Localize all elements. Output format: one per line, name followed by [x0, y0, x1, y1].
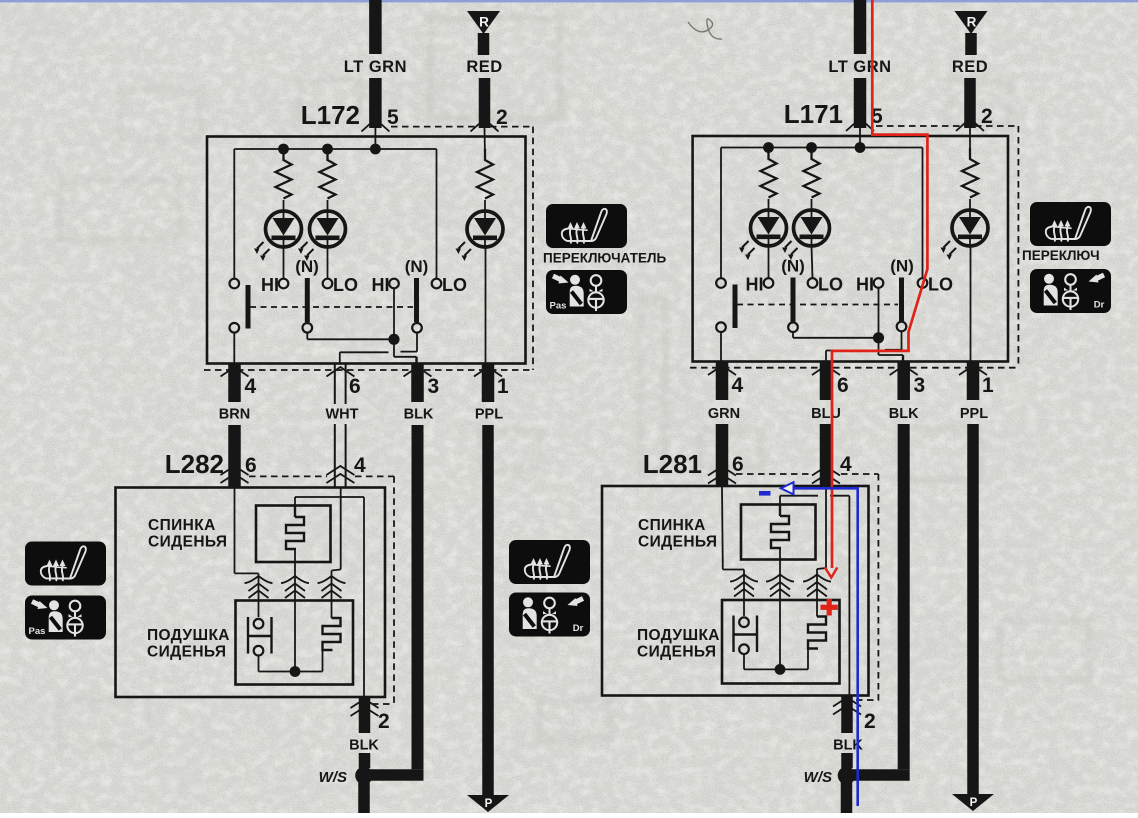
- pin 4 stub (L171): [716, 362, 729, 401]
- wire LED3 down to pin 1: [485, 247, 487, 363]
- LED indicator 3 (pilot): [467, 211, 503, 247]
- wire pin5 into internal supply rail (L171): [859, 128, 861, 148]
- connector L171 dashed boundary: [876, 125, 1018, 127]
- seat back heater element box (L281): [741, 505, 816, 560]
- svg-text:W/S: W/S: [804, 769, 832, 786]
- svg-text:HI: HI: [261, 275, 279, 295]
- resistor branch 3 (pilot, from pin 2, L171): [969, 128, 971, 157]
- LED indicator 1 (HI, L171): [751, 210, 787, 246]
- switch2 LO terminal circle (L171): [918, 278, 928, 288]
- connector L282 pin 4 double tent: [326, 466, 354, 475]
- wire RED to connector L172 pin 2: [479, 78, 491, 128]
- wire element top to pin2 riser (L281): [779, 496, 781, 505]
- wire switch2 lower contact toward pin 6 (with crossover hop): [416, 333, 418, 352]
- switch1 moving contact bar: [246, 285, 251, 329]
- red trace arrowhead: [825, 568, 837, 578]
- wire cushion element to junction: [322, 650, 324, 672]
- svg-text:1: 1: [982, 374, 994, 397]
- pin 6 tent (L171): [812, 366, 840, 376]
- svg-text:6: 6: [732, 453, 744, 476]
- svg-text:WHT: WHT: [325, 407, 358, 423]
- switch1 lower contact circle (mid, L171): [788, 322, 798, 332]
- pin 1 tent: [474, 367, 502, 377]
- switch1 neutral contact bar (N) (L171): [791, 278, 796, 322]
- pin 2 terminal tent (L171): [956, 119, 984, 132]
- svg-text:L282: L282: [165, 449, 224, 479]
- wire PPL from L172 pin 1 down to connector P (left): [482, 425, 494, 795]
- pin 5 terminal tent (L171): [846, 119, 874, 132]
- svg-text:Dr: Dr: [573, 623, 584, 634]
- svg-text:BLK: BLK: [889, 406, 919, 422]
- LED indicator 1 (HI): [266, 211, 302, 247]
- driver seat icon right of L171: [1030, 269, 1111, 313]
- switch1 lower contact circle (left): [230, 323, 240, 333]
- seat cushion heater element (meander): [323, 618, 341, 650]
- mechanical link dashed line (L171): [737, 304, 898, 306]
- wire below splice to bottom edge (left): [358, 776, 370, 814]
- wire pin6 down inside L282: [234, 488, 236, 573]
- svg-text:4: 4: [245, 375, 257, 398]
- wire PPL from L171 pin 1 down to connector P (right): [967, 424, 979, 794]
- wire RED stub below R connector: [478, 33, 490, 55]
- internal supply rail (L172): [234, 148, 436, 150]
- splice dot W/S (right): [838, 767, 856, 785]
- wire BLK from L172 pin 3 down to W/S splice: [412, 425, 424, 769]
- svg-text:BLK: BLK: [349, 738, 379, 754]
- thermal limit switch (L282 cushion): [247, 617, 249, 654]
- svg-text:4: 4: [354, 454, 366, 477]
- seat cushion box (L281): [722, 600, 840, 684]
- junction dot rail/branch 1 (L171): [763, 142, 774, 153]
- svg-text:LT GRN: LT GRN: [344, 58, 407, 76]
- wire LT GRN lower segment to connector L172 pin 5: [369, 78, 382, 128]
- blue minus symbol: [759, 491, 771, 496]
- svg-text:R: R: [967, 15, 977, 30]
- connector P (right): [952, 794, 994, 811]
- seat back heater element box (L282): [256, 506, 331, 563]
- svg-text:4: 4: [732, 374, 744, 397]
- seat heater module L281 body box: [602, 486, 869, 696]
- svg-text:HI: HI: [746, 275, 764, 295]
- svg-text:СПИНКА: СПИНКА: [638, 517, 706, 534]
- wire LED2 to LO terminal (L171): [812, 246, 813, 278]
- seat heater module L282 body box: [116, 488, 386, 698]
- inline connector chevrons (centre): [294, 550, 296, 672]
- svg-text:HI: HI: [856, 275, 874, 295]
- wire LT GRN feed (right, pin 5) upper segment: [854, 0, 867, 54]
- junction dot rail/pin5: [370, 144, 381, 155]
- svg-text:LO: LO: [333, 275, 358, 295]
- connector L281 dashed boundary: [736, 473, 812, 475]
- driver seat icon left of L281: [509, 593, 590, 637]
- svg-text:3: 3: [428, 375, 440, 398]
- wire pin4 down inside L281: [825, 487, 827, 568]
- seat back heater element (meander, L281): [779, 505, 781, 517]
- seat cushion box (L282): [236, 601, 354, 685]
- svg-text:RED: RED: [952, 58, 988, 76]
- switch1 LO terminal circle (L171): [808, 278, 818, 288]
- LED indicator 2 (LO, L171): [794, 210, 830, 246]
- red highlight trace: power feed path: [832, 0, 927, 568]
- svg-text:6: 6: [837, 374, 849, 397]
- wire RED stub below R connector (right): [965, 33, 977, 55]
- ground bus from BLK wire to splice (right): [847, 769, 910, 781]
- pin 2 double tent (L281): [833, 698, 861, 707]
- connector L281 pin 4 double tent: [812, 467, 840, 476]
- svg-text:Dr: Dr: [1094, 300, 1105, 311]
- svg-text:PPL: PPL: [960, 406, 988, 422]
- svg-text:L171: L171: [784, 99, 843, 129]
- svg-text:СИДЕНЬЯ: СИДЕНЬЯ: [637, 644, 716, 661]
- wire BLU from L171 pin 6 to L281 pin 4: [820, 424, 833, 487]
- inline connector chevrons (right): [331, 571, 333, 619]
- wire GRN from L171 pin 4 to L281 pin 6: [716, 424, 729, 487]
- blue highlight trace: ground path: [792, 488, 858, 806]
- wire junction down and right to pin 3 (L171): [878, 338, 880, 355]
- wire pin 2 to W/S splice: [359, 753, 371, 768]
- switch1 common terminal circle (L171): [716, 278, 726, 288]
- junction dot cushion common: [290, 666, 301, 677]
- switch1 common terminal circle: [230, 279, 240, 289]
- svg-text:2: 2: [378, 710, 390, 733]
- inline connector chevrons (left, seat back to cushion): [258, 573, 260, 617]
- wire thermal switch to junction (L281): [743, 655, 745, 670]
- thermal limit switch (L281 cushion): [732, 616, 734, 653]
- svg-text:ПОДУШКА: ПОДУШКА: [637, 627, 720, 644]
- mechanical link dashed line between switch bars: [250, 306, 413, 308]
- svg-text:LO: LO: [928, 275, 953, 295]
- switch1 moving contact bar (L171): [733, 285, 738, 329]
- wire switch1 lower contact to pin 4: [233, 333, 235, 363]
- svg-text:ПОДУШКА: ПОДУШКА: [147, 627, 230, 644]
- switch assembly L171 body box: [693, 136, 1008, 362]
- switch2 HI terminal circle (L171): [874, 278, 884, 288]
- svg-text:BRN: BRN: [219, 407, 250, 423]
- resistor branch 2 (LO indicator, L171): [804, 148, 820, 198]
- wire thermal switch to junction: [258, 656, 260, 671]
- switch1 lower contact circle (mid): [303, 323, 313, 333]
- pin 2 stub below L281: [841, 696, 853, 734]
- pin 4 stub (L172): [228, 364, 241, 403]
- switch2 LO terminal circle: [432, 279, 442, 289]
- wire BRN from L172 pin 4 to L282 pin 6: [228, 425, 241, 488]
- wire switch2 HI terminal down to junction: [393, 288, 395, 339]
- pin 3 tent (L171): [890, 366, 918, 376]
- pin 3 stub (L172): [411, 364, 424, 403]
- svg-text:(N): (N): [295, 257, 319, 276]
- pin 3 tent: [404, 367, 432, 377]
- switch1 neutral contact bar (N): [305, 278, 310, 322]
- svg-text:LT GRN: LT GRN: [828, 58, 891, 76]
- switch2 lower contact circle: [412, 323, 422, 333]
- connector P (left): [467, 795, 509, 812]
- wire switch1 mid lower contact to junction (L171): [792, 332, 794, 338]
- svg-text:СИДЕНЬЯ: СИДЕНЬЯ: [638, 534, 717, 551]
- switch1 LO terminal circle: [323, 279, 333, 289]
- svg-text:2: 2: [981, 105, 993, 128]
- switch2 lower contact circle (L171): [897, 322, 907, 332]
- heated seat icon left of L282: [25, 542, 106, 586]
- pin 6 tent (L172): [326, 367, 354, 377]
- junction dot rail/pin5 (L171): [855, 142, 866, 153]
- rail corner down to LO2 terminal (L171): [922, 148, 924, 279]
- wire rail left end down to switch1 common: [233, 149, 235, 279]
- wire pin 2 to W/S splice (right): [841, 753, 853, 768]
- wire LT GRN lower segment to connector L171 pin 5: [854, 78, 867, 128]
- resistor branch 1 (HI indicator): [276, 149, 292, 199]
- svg-text:LO: LO: [818, 275, 843, 295]
- svg-text:L281: L281: [643, 449, 702, 479]
- pen squiggle artifact top right: [688, 19, 722, 39]
- svg-text:(N): (N): [890, 257, 914, 276]
- wire pin5 into internal supply rail: [374, 128, 376, 149]
- heated seat icon left of L281: [509, 540, 590, 584]
- pin 1 tent (L171): [959, 366, 987, 376]
- connector L282 dashed boundary: [249, 475, 327, 477]
- seat cushion heater element (meander, L281): [808, 617, 826, 649]
- resistor branch 2 (LO indicator): [320, 149, 336, 199]
- pin 3 stub (L171): [897, 362, 910, 401]
- internal supply rail (L171): [721, 147, 923, 149]
- pin 4 tent: [221, 367, 249, 377]
- wire pin6 down inside L281: [721, 487, 724, 570]
- pin 2 double tent (L282): [351, 699, 379, 708]
- connector L282 pin 6 double tent: [221, 466, 249, 475]
- junction dot rail/branch 2 (L171): [806, 142, 817, 153]
- wire LED1 to HI terminal: [283, 247, 285, 279]
- svg-text:(N): (N): [781, 257, 805, 276]
- pin 1 stub (L172): [482, 364, 495, 403]
- pin 5 terminal tent (L172): [361, 119, 389, 132]
- connector L281 pin 6 double tent: [708, 467, 736, 476]
- wire switch2 lower contact toward pin 6 (with crossover hop, L171): [901, 331, 903, 350]
- pin 1 stub (L171): [967, 362, 980, 401]
- svg-text:P: P: [970, 797, 978, 809]
- svg-text:4: 4: [840, 453, 852, 476]
- switch2 HI terminal circle: [389, 279, 399, 289]
- svg-text:BLU: BLU: [811, 406, 841, 422]
- riser wire to pin 2 (L282): [363, 497, 365, 697]
- passenger seat icon left of L282: [25, 596, 106, 640]
- svg-text:L172: L172: [301, 100, 360, 130]
- wire pin4 down inside L282: [340, 488, 342, 570]
- inline connector chevrons (centre, L281): [779, 549, 781, 670]
- pin 2 terminal tent (L172): [471, 119, 499, 132]
- blue scan edge line at top: [0, 0, 1138, 2]
- junction dot (switch outputs to pin 3): [388, 334, 399, 345]
- svg-text:6: 6: [349, 375, 361, 398]
- switch2 neutral contact bar (N): [414, 278, 419, 322]
- svg-text:GRN: GRN: [708, 406, 740, 422]
- resistor branch 1 (HI indicator, L171): [761, 148, 777, 198]
- svg-text:1: 1: [497, 375, 509, 398]
- ground bus from BLK wire to splice (left): [364, 769, 424, 781]
- switch icon (heated seat) right of L172: [546, 204, 627, 248]
- switch1 HI terminal circle (L171): [764, 278, 774, 288]
- switch2 neutral contact bar (N) (L171): [899, 278, 904, 322]
- blue trace arrowhead: [781, 482, 794, 494]
- wire LT GRN feed (left, pin 5) upper segment: [369, 0, 382, 54]
- wire BLK from L171 pin 3 down to W/S splice (right): [898, 424, 910, 769]
- wire rail left end down to switch1 common (L171): [720, 148, 722, 279]
- wire element top to pin2 riser: [294, 497, 296, 506]
- switch assembly L172 body box: [207, 137, 526, 364]
- svg-text:Pas: Pas: [550, 301, 567, 312]
- wire below splice to bottom edge (right): [841, 776, 853, 814]
- switch1 lower contact circle (left, L171): [716, 322, 726, 332]
- wire RED to connector L171 pin 2: [964, 78, 976, 128]
- wire cushion element to junction (L281): [807, 649, 809, 670]
- switch icon (heated seat) right of L171: [1030, 202, 1111, 246]
- inline connector chevrons (left, L281): [743, 570, 745, 617]
- connector L172 dashed boundary: [391, 126, 533, 128]
- seat back heater element (meander): [294, 506, 296, 518]
- svg-text:RED: RED: [466, 58, 502, 76]
- wire junction down and right to pin 3: [393, 339, 395, 357]
- wire switch1 lower contact to pin 4 (L171): [720, 332, 722, 361]
- LED indicator 3 (pilot, L171): [952, 210, 988, 246]
- splice dot W/S (left): [355, 767, 373, 785]
- junction dot cushion common (L281): [775, 664, 786, 675]
- svg-text:5: 5: [387, 106, 399, 129]
- svg-text:2: 2: [864, 710, 876, 733]
- riser wire to pin 2 (L281): [848, 496, 850, 696]
- svg-text:W/S: W/S: [319, 769, 347, 786]
- wire switch1 mid lower contact to junction: [306, 333, 308, 340]
- svg-text:СИДЕНЬЯ: СИДЕНЬЯ: [148, 534, 227, 551]
- svg-text:СПИНКА: СПИНКА: [148, 517, 216, 534]
- junction dot rail/branch 1: [278, 144, 289, 155]
- connector R (right RED feed): [955, 11, 988, 34]
- wire LED2 to LO terminal: [327, 247, 329, 279]
- inline connector chevrons (right, L281): [816, 569, 818, 617]
- resistor branch 3 (pilot, from pin 2): [484, 128, 487, 158]
- switch1 HI terminal circle: [279, 279, 289, 289]
- red plus symbol: [821, 605, 838, 610]
- connector R (left RED feed): [467, 11, 500, 34]
- junction dot (switch outputs to pin 3, L171): [873, 332, 884, 343]
- junction dot rail/branch 2: [322, 144, 333, 155]
- wire WHT from L172 pin 6 to L282 pin 4 (hollow double line): [334, 364, 336, 405]
- LED indicator 2 (LO): [310, 211, 346, 247]
- svg-text:PPL: PPL: [475, 407, 503, 423]
- wire LED3 down to pin 1 (L171): [970, 246, 972, 361]
- wire LED1 to HI terminal (L171): [768, 246, 770, 278]
- pin 6 stub (L171): [820, 362, 833, 401]
- svg-text:LO: LO: [442, 275, 467, 295]
- passenger seat icon right of L172: [546, 270, 627, 314]
- svg-text:P: P: [485, 798, 493, 810]
- svg-text:6: 6: [245, 454, 257, 477]
- svg-text:ПЕРЕКЛЮЧ: ПЕРЕКЛЮЧ: [1022, 248, 1100, 263]
- svg-text:2: 2: [496, 106, 508, 129]
- svg-text:Pas: Pas: [29, 626, 46, 637]
- wire switch2 HI terminal down to junction (L171): [878, 288, 880, 338]
- svg-text:3: 3: [914, 374, 926, 397]
- svg-text:BLK: BLK: [404, 407, 434, 423]
- svg-text:СИДЕНЬЯ: СИДЕНЬЯ: [147, 644, 226, 661]
- pin 2 stub below L282: [359, 697, 371, 733]
- rail corner down to LO2 terminal: [436, 149, 438, 279]
- svg-text:R: R: [479, 15, 489, 30]
- svg-text:HI: HI: [372, 275, 390, 295]
- pin 4 tent (L171): [708, 366, 736, 376]
- svg-text:(N): (N): [405, 257, 429, 276]
- svg-text:ПЕРЕКЛЮЧАТЕЛЬ: ПЕРЕКЛЮЧАТЕЛЬ: [543, 251, 666, 266]
